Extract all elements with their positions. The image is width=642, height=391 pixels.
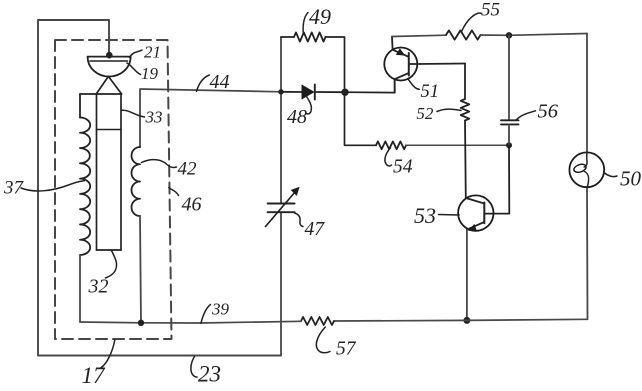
svg-text:19: 19 [141,64,159,83]
svg-text:52: 52 [416,104,434,123]
svg-text:42: 42 [178,159,198,180]
svg-text:54: 54 [393,157,413,178]
svg-text:47: 47 [305,219,326,240]
svg-text:48: 48 [287,106,307,128]
svg-text:57: 57 [336,339,357,360]
svg-text:23: 23 [198,362,221,387]
svg-text:55: 55 [481,0,500,21]
svg-text:44: 44 [210,71,230,93]
svg-text:37: 37 [3,178,25,199]
svg-text:33: 33 [145,108,163,127]
svg-text:39: 39 [211,300,230,319]
svg-text:50: 50 [620,167,642,191]
svg-text:56: 56 [538,101,559,123]
svg-text:17: 17 [82,363,107,386]
svg-text:21: 21 [144,43,161,62]
svg-text:32: 32 [88,276,109,298]
svg-text:53: 53 [414,203,436,228]
svg-text:51: 51 [421,82,440,102]
svg-text:46: 46 [182,194,202,216]
svg-text:49: 49 [309,4,331,29]
